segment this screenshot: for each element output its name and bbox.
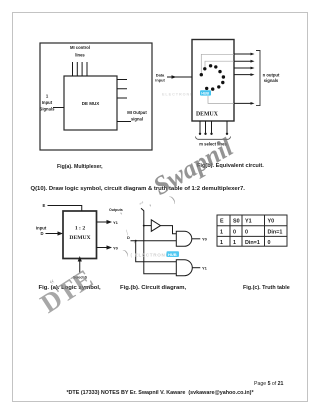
svg-text:MI control: MI control <box>70 45 90 50</box>
svg-text:Y1: Y1 <box>202 265 208 270</box>
svg-text:Din=1: Din=1 <box>245 240 260 246</box>
svg-text:1: 1 <box>220 240 223 246</box>
svg-text:S0: S0 <box>233 219 240 225</box>
svg-text:D: D <box>41 231 44 236</box>
svg-text:Input: Input <box>36 226 47 231</box>
svg-text:Y0: Y0 <box>202 237 208 242</box>
svg-text:Signals: Signals <box>40 107 56 112</box>
svg-text:0: 0 <box>245 229 248 235</box>
svg-text:0: 0 <box>233 229 236 235</box>
svg-text:signal: signal <box>131 117 143 122</box>
svg-text:1: 1 <box>220 229 223 235</box>
svg-text:HUB: HUB <box>168 252 177 257</box>
svg-text:DEMUX: DEMUX <box>69 235 90 241</box>
svg-text:Din=1: Din=1 <box>268 229 283 235</box>
svg-text:E: E <box>43 203 46 208</box>
svg-text:HUB: HUB <box>201 92 209 96</box>
svg-text:Y1: Y1 <box>245 219 252 225</box>
svg-text:Input: Input <box>42 100 53 105</box>
svg-text:DEMUX: DEMUX <box>196 112 219 118</box>
svg-text:0: 0 <box>268 240 271 246</box>
svg-text:Y0: Y0 <box>113 245 119 250</box>
svg-text:E: E <box>220 219 224 225</box>
svg-text:MI Output: MI Output <box>127 110 147 115</box>
svg-text:lines: lines <box>75 53 85 58</box>
svg-text:input: input <box>155 78 165 83</box>
svg-text:DE MUX: DE MUX <box>82 101 100 106</box>
svg-text:signals: signals <box>264 78 279 83</box>
svg-text:1: 1 <box>46 94 49 99</box>
svg-text:1: 1 <box>233 240 236 246</box>
svg-text:ELECTRONI: ELECTRONI <box>162 93 192 97</box>
svg-text:Y0: Y0 <box>268 219 275 225</box>
svg-text:Y1: Y1 <box>113 220 119 225</box>
svg-text:n output: n output <box>263 73 280 78</box>
svg-text:1 : 2: 1 : 2 <box>75 226 85 232</box>
